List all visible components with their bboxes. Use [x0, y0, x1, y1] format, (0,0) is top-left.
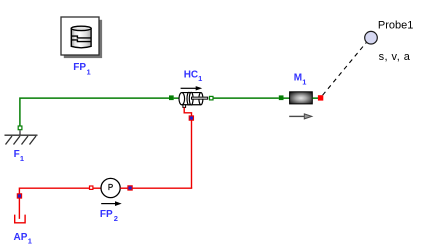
svg-text:s, v, a: s, v, a: [379, 51, 411, 63]
fixed support F1 stub: [19, 130, 21, 135]
svg-text:AP: AP: [14, 232, 28, 243]
fixed support F1 hatch 3: [22, 136, 29, 145]
cylinder HC1 piston: [187, 92, 191, 105]
wire red HC1 to bottom bus: [184, 107, 191, 188]
svg-text:HC: HC: [184, 69, 198, 80]
svg-text:Probe1: Probe1: [378, 20, 413, 32]
wire green mass to node: [312, 97, 318, 99]
FP1 oil drum icon body: [71, 28, 91, 47]
ambient pressure AP1 cup: [15, 215, 25, 223]
svg-text:1: 1: [302, 77, 306, 86]
wire green square to cylinder: [174, 97, 180, 99]
wire green rod to mass: [213, 97, 279, 99]
svg-text:F: F: [14, 149, 20, 160]
svg-text:M: M: [294, 72, 302, 83]
mass M1 motion arrow: [289, 115, 305, 117]
svg-text:2: 2: [114, 214, 118, 223]
svg-text:1: 1: [20, 154, 24, 163]
fluid properties block FP1 frame: [61, 17, 99, 55]
svg-text:P: P: [108, 183, 113, 192]
cylinder HC1 piston rod: [192, 97, 208, 99]
cylinder HC1 right end ellipse: [199, 93, 203, 105]
junction node AP1: [17, 194, 21, 198]
wire green square to mass: [283, 97, 289, 99]
fixed support F1 hatch 1: [6, 136, 13, 145]
mass M1 body: [290, 92, 313, 104]
junction node pump output: [128, 186, 132, 190]
cylinder HC1 barrel body: [182, 93, 201, 105]
svg-text:FP: FP: [100, 209, 113, 220]
svg-text:1: 1: [198, 74, 202, 83]
cylinder HC1 arrow: [181, 87, 197, 89]
pump FP2 flow arrow: [101, 203, 116, 205]
cylinder HC1 bottom port stem: [183, 105, 186, 108]
pump FP2 circle: [101, 178, 120, 197]
cylinder HC1 left connector square: [169, 95, 174, 100]
probe Probe1 circle: [365, 31, 378, 44]
probe connection dashed line: [323, 43, 367, 96]
node red square at mass output: [318, 95, 323, 100]
FP1 oil drum icon top ellipse: [71, 26, 91, 30]
wire red pump to junction: [120, 187, 127, 189]
fluid properties block FP1 shadow: [64, 20, 102, 58]
svg-text:1: 1: [87, 68, 91, 77]
wire red pump junction to riser: [133, 187, 193, 189]
wire green F1 to HC1: [20, 98, 169, 126]
pump FP2 left connector square: [90, 186, 93, 189]
mass M1 left connector square: [279, 95, 284, 100]
FP1 oil drum step line 2: [71, 40, 91, 42]
fixed support F1 ground line: [5, 134, 38, 136]
wire red square to pump: [93, 187, 101, 189]
cylinder HC1 left end ellipse: [179, 93, 185, 105]
wire red bottom bus AP1 to pump: [19, 188, 89, 219]
fixed support F1 hatch 2: [14, 136, 21, 145]
FP1 oil drum step line 1: [71, 36, 91, 38]
cylinder HC1 rod connector square: [210, 96, 214, 100]
junction node below HC1: [189, 116, 193, 120]
fixed support F1 connector square: [18, 126, 22, 130]
svg-text:1: 1: [28, 237, 32, 246]
svg-text:FP: FP: [73, 62, 86, 73]
fixed support F1 hatch 4: [30, 136, 37, 145]
